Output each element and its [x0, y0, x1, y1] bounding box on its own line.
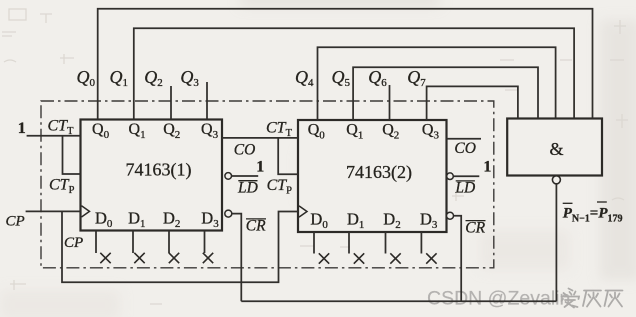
wire Q3 stub U1 — [206, 82, 208, 120]
wire Q7 U2.Q3 to U3 input — [427, 86, 518, 120]
svg-text:1: 1 — [256, 158, 264, 175]
wire CO U1 to CTT U2 — [222, 137, 298, 139]
wire CR U2 to feedback — [454, 216, 462, 302]
dont-care mark D2 U1 — [169, 253, 179, 263]
wire LD stub U1 — [232, 175, 259, 177]
svg-text:CP: CP — [6, 214, 25, 230]
svg-text:CO: CO — [234, 141, 256, 158]
wire Q5 U2.Q1 to U3 input — [353, 67, 538, 120]
U2 clock edge triangle — [299, 206, 307, 217]
wire Q2 stub U1 — [170, 86, 172, 120]
svg-text:74163(2): 74163(2) — [346, 162, 412, 183]
svg-text:LD: LD — [237, 179, 258, 196]
label CR U2 — [465, 219, 485, 236]
dont-care mark D2 U2 — [390, 253, 400, 263]
wire D1 U1 — [132, 231, 134, 254]
svg-text:CO: CO — [454, 140, 476, 157]
wire branch to CTP U2 — [278, 138, 298, 174]
label CR U1 — [246, 218, 266, 235]
svg-text:CP: CP — [64, 235, 83, 251]
label LD U2 — [454, 180, 475, 197]
svg-text:1: 1 — [18, 120, 26, 137]
wire CO stub U2 — [447, 138, 482, 140]
wire U3 output down — [555, 184, 557, 301]
wire Q0 U1 to U3 input — [98, 9, 593, 120]
wire D3 U2 — [420, 232, 422, 254]
dont-care mark D1 U1 — [134, 253, 144, 263]
svg-text:&: & — [550, 139, 564, 159]
counter U2 74163(2) body — [298, 120, 447, 232]
wire feedback bottom CR net — [241, 300, 556, 302]
LD bubble U1 — [225, 173, 232, 180]
label LD U1 — [237, 179, 258, 196]
wire D2 U2 — [385, 232, 387, 254]
wire Q6 stub U2 — [389, 85, 391, 120]
dont-care mark D3 U2 — [426, 253, 436, 263]
wire D0 U1 — [95, 231, 97, 254]
watermark CSDN — [427, 288, 623, 310]
wire LD stub U2 — [453, 175, 479, 177]
svg-text:74163(1): 74163(1) — [126, 160, 192, 181]
wire D1 U2 — [348, 232, 350, 254]
wire D3 U1 — [204, 231, 206, 254]
wire Q4 U2.Q0 to U3 input — [318, 47, 556, 120]
U3 output bubble — [552, 176, 560, 184]
wire D0 U2 — [313, 232, 315, 254]
wire CR U1 to feedback — [232, 214, 241, 302]
CR bubble U2 — [447, 212, 454, 219]
dash-dot boundary box — [41, 101, 494, 268]
svg-text:CR: CR — [246, 218, 266, 235]
counter U1 74163(1) body — [81, 120, 223, 231]
wire CP input U1 — [26, 210, 81, 212]
svg-text:LD: LD — [454, 180, 475, 197]
dont-care mark D0 U1 — [100, 253, 110, 263]
wire CP branch to U2 clock — [62, 211, 298, 282]
dont-care mark D0 U2 — [319, 253, 329, 263]
wire Q1 U1 to U3 input — [134, 28, 574, 119]
CR bubble U1 — [225, 210, 232, 217]
svg-text:CR: CR — [465, 219, 485, 236]
svg-text:CSDN @Zevalin: CSDN @Zevalin — [427, 288, 570, 310]
LD bubble U2 — [447, 173, 454, 180]
wire 1 to CTT U1 — [27, 135, 81, 137]
wire branch to CTP U1 — [63, 136, 81, 174]
dont-care mark D3 U1 — [203, 253, 213, 263]
dont-care mark D1 U2 — [354, 253, 364, 263]
nand gate U3 body — [507, 119, 602, 176]
svg-text:1: 1 — [483, 159, 491, 176]
net label PN-1 = P179 — [563, 202, 623, 225]
wire D2 U1 — [168, 231, 170, 254]
U1 clock edge triangle — [82, 206, 90, 217]
